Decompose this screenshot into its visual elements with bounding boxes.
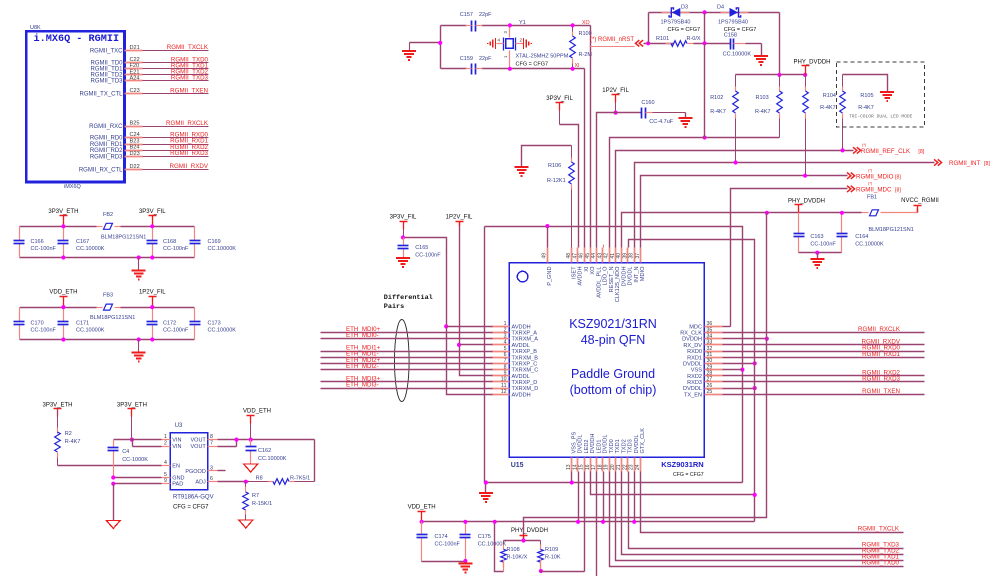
svg-text:1P2V_FIL: 1P2V_FIL xyxy=(139,290,166,296)
svg-text:(*) RGMII_nRST: (*) RGMII_nRST xyxy=(590,37,634,43)
svg-text:RGMII_MDIO: RGMII_MDIO xyxy=(856,174,894,181)
svg-text:C170: C170 xyxy=(31,320,44,326)
U15 pin 36 MDC xyxy=(705,326,723,328)
wire LED1 pin17 xyxy=(596,472,598,576)
U15 pin 21 TXD2 xyxy=(621,458,623,472)
svg-text:1P2V_FIL: 1P2V_FIL xyxy=(446,215,473,221)
net RGMII_TXEN xyxy=(723,394,925,396)
svg-text:VOUT: VOUT xyxy=(191,438,207,444)
wire strap to ground xyxy=(843,75,888,93)
svg-text:CC.10000K: CC.10000K xyxy=(208,246,237,252)
svg-text:2: 2 xyxy=(504,327,507,333)
svg-text:VIN: VIN xyxy=(172,438,181,444)
power flag VDD_ETH xyxy=(247,415,255,417)
U15 pin 39 DVDDL xyxy=(627,248,629,263)
power flag 3P3V_ETH xyxy=(128,408,136,410)
svg-text:3P3V_FIL: 3P3V_FIL xyxy=(390,215,417,221)
svg-text:RGMII_RXD3: RGMII_RXD3 xyxy=(862,376,900,383)
capacitor C4 xyxy=(113,440,115,448)
ellipse differential pairs highlight xyxy=(395,320,410,402)
U15 pin 34 DVDDH xyxy=(705,338,723,340)
svg-text:DVDDH: DVDDH xyxy=(590,434,596,454)
svg-text:32: 32 xyxy=(707,346,713,352)
wire R108 R109 top xyxy=(504,540,541,542)
svg-text:22pF: 22pF xyxy=(479,12,492,18)
capacitor C157 xyxy=(471,21,473,32)
ferrite bead FB2 xyxy=(97,226,103,228)
wire 3P3V_FIL to AVDDH pin47 xyxy=(560,125,579,248)
svg-text:CFG = CFG7: CFG = CFG7 xyxy=(673,472,704,478)
node D3-D4 junction xyxy=(703,10,707,14)
svg-text:CC-100nF: CC-100nF xyxy=(810,242,836,248)
svg-text:XTAL-25MHZ 50PPM: XTAL-25MHZ 50PPM xyxy=(516,54,569,60)
U3 pin 8 stub xyxy=(208,439,218,441)
svg-text:41: 41 xyxy=(610,253,616,259)
svg-text:XO: XO xyxy=(590,266,596,275)
svg-text:VIN: VIN xyxy=(172,444,181,450)
svg-text:12: 12 xyxy=(501,389,507,395)
svg-text:48-pin QFN: 48-pin QFN xyxy=(581,333,646,347)
resistor R103 xyxy=(779,75,781,87)
svg-text:46: 46 xyxy=(579,253,585,259)
ground xyxy=(239,520,253,528)
resistor R7 xyxy=(245,482,247,487)
svg-text:XI: XI xyxy=(584,266,590,272)
svg-text:39: 39 xyxy=(622,253,628,259)
capacitor C166 xyxy=(19,227,21,241)
U15 pin 18 DVDDL xyxy=(602,458,604,472)
svg-text:Differential: Differential xyxy=(384,294,433,302)
wire cap bottoms xyxy=(799,252,842,254)
svg-text:TXD2: TXD2 xyxy=(621,439,627,453)
svg-text:RGMII_TXD3: RGMII_TXD3 xyxy=(171,75,209,82)
wire XI bottom rail xyxy=(441,68,467,70)
svg-text:RGMII_RXD3: RGMII_RXD3 xyxy=(170,150,208,157)
svg-text:TXRXM_C: TXRXM_C xyxy=(512,368,539,374)
U15 pin 30 DVDDL xyxy=(705,363,723,365)
svg-text:C174: C174 xyxy=(435,534,448,540)
svg-text:C162: C162 xyxy=(258,448,271,454)
U15 pin 33 RX_DV xyxy=(705,344,723,346)
U15 pin 44 AVDDL_PLL xyxy=(596,248,598,263)
svg-text:R-4K7: R-4K7 xyxy=(710,109,726,115)
svg-text:19: 19 xyxy=(604,464,610,470)
wire VSS pin29 xyxy=(723,369,743,371)
wire LED2 pin15 xyxy=(584,472,586,572)
svg-text:9: 9 xyxy=(504,371,507,377)
svg-text:PGOOD: PGOOD xyxy=(185,469,206,475)
svg-text:R7: R7 xyxy=(252,493,259,499)
svg-text:AVDDL: AVDDL xyxy=(512,343,530,349)
svg-text:33: 33 xyxy=(707,340,713,346)
svg-text:C172: C172 xyxy=(163,320,176,326)
capacitor C172 xyxy=(152,308,154,322)
svg-text:CC.10000K: CC.10000K xyxy=(76,246,105,252)
capacitor C173 xyxy=(194,308,196,322)
svg-text:CLK125_NDO: CLK125_NDO xyxy=(615,266,621,302)
wire GND left vertical xyxy=(484,227,486,483)
svg-text:ETH_MDI0-: ETH_MDI0- xyxy=(346,332,379,339)
svg-text:14: 14 xyxy=(572,464,578,470)
svg-text:C169: C169 xyxy=(208,239,221,245)
svg-text:A24: A24 xyxy=(130,75,140,81)
svg-text:1PS79SB40: 1PS79SB40 xyxy=(661,20,691,26)
wire DVDDH pin16 xyxy=(591,472,755,495)
svg-text:CC.10000K: CC.10000K xyxy=(208,327,237,333)
svg-text:VSS_PS: VSS_PS xyxy=(571,431,577,453)
svg-text:RGMII_RXCLK: RGMII_RXCLK xyxy=(858,326,901,333)
node PHY down xyxy=(765,211,769,215)
svg-text:XO: XO xyxy=(582,20,590,26)
ground xyxy=(113,484,115,521)
resistor R2 xyxy=(57,409,59,428)
svg-text:CC.10000K: CC.10000K xyxy=(478,542,507,548)
wire PAD pin9 xyxy=(114,483,162,485)
ground xyxy=(761,44,763,57)
svg-text:RXD2: RXD2 xyxy=(687,374,702,380)
svg-text:GTX_CLK: GTX_CLK xyxy=(640,428,646,454)
svg-text:DVDDL: DVDDL xyxy=(578,435,584,454)
svg-text:Paddle Ground: Paddle Ground xyxy=(571,367,655,381)
U15 pin 23 DVDDL xyxy=(634,458,636,472)
svg-text:CC-100nF: CC-100nF xyxy=(415,253,441,259)
U15 pin 43 LDO_O xyxy=(602,248,604,263)
svg-text:VSS: VSS xyxy=(691,368,702,374)
svg-text:TXRXP_D: TXRXP_D xyxy=(512,380,538,386)
svg-text:C168: C168 xyxy=(163,239,176,245)
net RGMII_MDIO xyxy=(641,176,848,248)
node VSS xyxy=(740,368,744,372)
svg-text:C164: C164 xyxy=(855,234,868,240)
U3 pin 9 stub xyxy=(162,483,171,485)
U15 pin 24 GTX_CLK xyxy=(640,458,642,472)
svg-text:C24: C24 xyxy=(130,132,140,138)
svg-text:R101: R101 xyxy=(656,36,669,42)
wire VOUT2 join xyxy=(218,446,237,448)
wire GND pin5 xyxy=(114,477,162,479)
U15 pin 26 DVDDL xyxy=(705,388,723,390)
power flag 3P3V_ETH xyxy=(54,408,62,410)
U15 pin 28 RXD2 xyxy=(705,375,723,377)
resistor R109 xyxy=(540,541,542,545)
net RGMII_RXDV xyxy=(723,344,925,346)
U3 pin 5 stub xyxy=(162,477,171,479)
node ADJ-R7 xyxy=(244,480,248,484)
wire DVDDL pin23 xyxy=(634,472,636,522)
svg-text:DVDDL: DVDDL xyxy=(628,267,634,286)
svg-text:RX_DV: RX_DV xyxy=(683,343,702,349)
svg-text:[8]: [8] xyxy=(895,188,901,194)
svg-text:Y1: Y1 xyxy=(519,20,526,26)
wire D4 to rail xyxy=(779,13,781,75)
ground xyxy=(244,464,258,472)
svg-text:D3: D3 xyxy=(681,5,688,11)
net RGMII_RXD0 xyxy=(723,351,925,353)
resistor R105 strap xyxy=(842,75,844,87)
svg-text:CC.10000K: CC.10000K xyxy=(258,456,287,462)
svg-text:8: 8 xyxy=(504,364,507,370)
resistor R101 R-0/X xyxy=(666,43,672,45)
svg-text:C165: C165 xyxy=(415,245,428,251)
svg-text:3: 3 xyxy=(210,465,213,471)
U15 pin 37 MDIO xyxy=(640,248,642,263)
svg-text:C163: C163 xyxy=(810,234,823,240)
U15 pin 3 TXRXM_A xyxy=(492,338,510,340)
svg-text:D22: D22 xyxy=(130,164,140,170)
resistor R106 ISET xyxy=(571,146,573,158)
U15 pin 6 TXRXM_B xyxy=(492,357,510,359)
svg-text:DVDDL: DVDDL xyxy=(603,435,609,454)
U3 pin 4 stub xyxy=(162,465,171,467)
svg-text:45: 45 xyxy=(585,253,591,259)
svg-text:2: 2 xyxy=(520,38,523,43)
U15 pin 32 RXD0 xyxy=(705,351,723,353)
wire feedback xyxy=(314,440,316,482)
svg-text:1: 1 xyxy=(504,321,507,327)
svg-text:3: 3 xyxy=(504,334,507,340)
U15 pin 8 TXRXM_C xyxy=(492,369,510,371)
svg-text:RGMII_TXCLK: RGMII_TXCLK xyxy=(167,44,209,51)
svg-text:CFG = CFG7: CFG = CFG7 xyxy=(173,505,209,511)
svg-text:RGMII_RXCLK: RGMII_RXCLK xyxy=(166,120,209,127)
svg-text:RGMII_TX_CTL: RGMII_TX_CTL xyxy=(79,92,123,98)
diode D3 1PS79SB40 xyxy=(662,12,671,14)
net RGMII_TXCLK xyxy=(641,472,904,533)
IC U15 KSZ9021/31RN xyxy=(509,263,704,457)
svg-text:44: 44 xyxy=(591,253,597,259)
net RGMII_RXCLK xyxy=(723,332,925,334)
svg-text:22pF: 22pF xyxy=(479,56,492,62)
svg-text:R103: R103 xyxy=(756,95,769,101)
diode D4 1PS79SB40 xyxy=(721,12,730,14)
svg-text:R-12K1: R-12K1 xyxy=(547,178,566,184)
svg-text:R-4K7: R-4K7 xyxy=(858,105,874,111)
svg-text:P_GND: P_GND xyxy=(547,267,553,286)
wire R108 to rail xyxy=(495,522,504,572)
svg-text:16: 16 xyxy=(585,464,591,470)
svg-text:PHY_DVDDH: PHY_DVDDH xyxy=(511,528,548,534)
svg-text:42: 42 xyxy=(604,253,610,259)
U15 pin 29 VSS xyxy=(705,369,723,371)
svg-text:CFG = CFG7: CFG = CFG7 xyxy=(516,62,549,68)
svg-text:CC-100nF: CC-100nF xyxy=(435,542,461,548)
capacitor C170 xyxy=(19,308,21,322)
svg-text:BLM18PG121SN1: BLM18PG121SN1 xyxy=(101,234,146,240)
svg-text:ISET: ISET xyxy=(571,266,577,279)
U3 pin 1 stub xyxy=(162,439,171,441)
svg-text:24: 24 xyxy=(635,464,641,470)
U15 pin 25 TX_EN xyxy=(705,394,723,396)
svg-text:ETH_MDI2-: ETH_MDI2- xyxy=(346,363,379,370)
svg-text:KSZ9021/31RN: KSZ9021/31RN xyxy=(569,317,657,331)
svg-text:MDC: MDC xyxy=(689,324,702,330)
power flag 1P2V_FIL xyxy=(456,221,464,223)
svg-text:VDD_ETH: VDD_ETH xyxy=(49,290,77,296)
svg-text:TXD3: TXD3 xyxy=(628,439,634,453)
svg-text:49: 49 xyxy=(542,253,548,259)
U15 pin 2 TXRXP_A xyxy=(492,332,510,334)
svg-text:AVDDH: AVDDH xyxy=(578,267,584,286)
U15 pin 41 CLK125_NDO xyxy=(615,248,617,263)
ferrite bead FB2 filter rail xyxy=(20,226,97,228)
svg-text:30: 30 xyxy=(707,358,713,364)
svg-text:BLM18PG121SN1: BLM18PG121SN1 xyxy=(90,315,135,321)
net RGMII_RXD3 xyxy=(723,381,925,383)
U15 pin 9 AVDDL xyxy=(492,375,510,377)
wire ETH_MDI0- xyxy=(321,338,493,340)
U15 pin 45 XO xyxy=(590,248,592,263)
wire GND bottom xyxy=(485,482,743,484)
svg-text:TXRXP_A: TXRXP_A xyxy=(512,331,538,337)
wire MDC pin36 riser xyxy=(723,326,731,328)
svg-text:7: 7 xyxy=(210,441,213,447)
U3 pin 6 stub xyxy=(208,481,218,483)
svg-text:RGMII_RD0: RGMII_RD0 xyxy=(90,136,123,142)
ground xyxy=(410,42,441,44)
U15 pin 17 LED1 xyxy=(596,458,598,472)
wire XO top rail xyxy=(441,25,467,27)
svg-text:R-0/X: R-0/X xyxy=(687,36,701,42)
svg-text:C157: C157 xyxy=(460,12,473,18)
svg-text:34: 34 xyxy=(707,334,713,340)
svg-text:C173: C173 xyxy=(208,320,221,326)
net RGMII_MDC xyxy=(731,189,848,327)
U15 pin 16 DVDDH xyxy=(590,458,592,472)
wire ADJ xyxy=(218,481,249,483)
svg-text:GND: GND xyxy=(172,476,184,482)
svg-text:CC-100nF: CC-100nF xyxy=(163,246,189,252)
svg-text:3P3V_FIL: 3P3V_FIL xyxy=(139,209,166,215)
wire R101 to C158 xyxy=(694,43,731,45)
svg-text:C166: C166 xyxy=(31,239,44,245)
svg-text:CC-100nF: CC-100nF xyxy=(31,246,57,252)
wire ETH_MDI2+ xyxy=(321,363,493,365)
svg-text:11: 11 xyxy=(501,383,506,389)
svg-text:9: 9 xyxy=(164,478,167,484)
resistor R8 xyxy=(249,481,269,483)
svg-text:ADJ: ADJ xyxy=(195,480,206,486)
svg-text:25: 25 xyxy=(707,389,713,395)
capacitor C160 xyxy=(641,108,643,119)
svg-text:20: 20 xyxy=(610,464,616,470)
svg-text:INT_N: INT_N xyxy=(634,267,640,283)
svg-text:(bottom of chip): (bottom of chip) xyxy=(570,383,657,397)
wire GND rail top xyxy=(485,227,743,483)
net RGMII_REF_CLK xyxy=(616,151,854,248)
IC U3 RT9186A-GQV xyxy=(170,433,208,490)
U15 pin 49 P_GND xyxy=(547,248,549,263)
svg-text:43: 43 xyxy=(597,253,603,259)
svg-text:U8K: U8K xyxy=(30,25,41,31)
svg-text:AVDDH: AVDDH xyxy=(512,324,531,330)
svg-text:R108: R108 xyxy=(507,547,520,553)
wire pullup rail xyxy=(736,74,806,76)
svg-text:RGMII_TD3: RGMII_TD3 xyxy=(90,79,123,85)
svg-text:TXRXP_B: TXRXP_B xyxy=(512,349,538,355)
svg-text:FB2: FB2 xyxy=(103,212,113,218)
wire R109 to LED2 xyxy=(541,571,585,573)
net RGMII_TXD1 xyxy=(616,472,904,561)
wire GND pin13 xyxy=(571,472,573,483)
node P_GND xyxy=(545,224,549,228)
svg-text:LED2: LED2 xyxy=(584,440,590,454)
svg-text:U15: U15 xyxy=(511,462,524,469)
wire ETH_MDI3+ xyxy=(321,381,493,383)
svg-text:KSZ9031RN: KSZ9031RN xyxy=(661,460,704,469)
svg-text:3P3V_ETH: 3P3V_ETH xyxy=(42,402,72,408)
svg-text:TRI-COLOR DUAL LED MODE: TRI-COLOR DUAL LED MODE xyxy=(849,114,913,120)
svg-text:C167: C167 xyxy=(76,239,89,245)
svg-text:PAD: PAD xyxy=(172,482,183,488)
ground xyxy=(396,258,410,267)
svg-text:1: 1 xyxy=(164,434,167,440)
svg-text:C160: C160 xyxy=(641,100,654,106)
net RGMII_RXD1 xyxy=(723,357,925,359)
svg-text:3P3V_ETH: 3P3V_ETH xyxy=(117,402,147,408)
svg-text:U3: U3 xyxy=(175,423,183,429)
svg-text:MDIO: MDIO xyxy=(640,266,646,281)
ferrite bead FB1 xyxy=(862,212,869,214)
U15 pin 4 AVDDL xyxy=(492,344,510,346)
power flag PHY_DVDDH xyxy=(795,204,803,206)
svg-text:DVDDL: DVDDL xyxy=(683,386,702,392)
svg-text:R106: R106 xyxy=(548,163,561,169)
svg-text:RESET_N: RESET_N xyxy=(609,267,615,293)
svg-text:5: 5 xyxy=(164,472,167,478)
svg-text:C22: C22 xyxy=(130,57,140,63)
svg-text:DVDDH: DVDDH xyxy=(682,337,702,343)
ferrite bead FB3 xyxy=(97,307,103,309)
wire PGOOD stub xyxy=(218,470,226,472)
svg-text:CC-4.7uF: CC-4.7uF xyxy=(649,119,673,125)
svg-text:C158: C158 xyxy=(724,32,737,38)
svg-text:RT9186A-GQV: RT9186A-GQV xyxy=(173,495,214,501)
wire cap bottoms xyxy=(422,561,466,563)
wire ETH_MDI2- xyxy=(321,369,493,371)
ground xyxy=(485,483,487,494)
dashed box TRI-COLOR DUAL LED MODE xyxy=(837,62,925,127)
svg-text:F20: F20 xyxy=(130,63,140,69)
svg-text:47: 47 xyxy=(572,253,578,259)
U3 pin 3 stub xyxy=(208,470,218,472)
wire ETH_MDI0+ xyxy=(321,332,493,334)
U15 pin 40 DVDDH xyxy=(621,248,623,263)
svg-text:RGMII_TXEN: RGMII_TXEN xyxy=(862,388,900,395)
wire AVDDH vertical 3P3V_FIL xyxy=(404,238,493,395)
svg-text:RGMII_MDC: RGMII_MDC xyxy=(856,187,892,194)
svg-text:B23: B23 xyxy=(130,138,140,144)
svg-text:7: 7 xyxy=(504,358,507,364)
svg-text:13: 13 xyxy=(566,464,572,470)
wire PHY_DVDDH rail xyxy=(622,213,862,248)
U15 pin 48 ISET xyxy=(571,248,573,263)
U15 pin 11 TXRXM_D xyxy=(492,388,510,390)
wire DVDDL pin14 xyxy=(578,472,580,522)
resistor R102 xyxy=(735,75,737,87)
wire DVDDL pin26 xyxy=(723,388,755,390)
U15 pin 20 TXD1 xyxy=(615,458,617,472)
svg-text:B25: B25 xyxy=(130,121,140,127)
U15 pin 14 DVDDL xyxy=(577,458,579,472)
svg-text:CC.10000K: CC.10000K xyxy=(723,52,752,58)
svg-text:RGMII_TD1: RGMII_TD1 xyxy=(90,67,123,73)
svg-text:CFG = CFG7: CFG = CFG7 xyxy=(668,27,701,33)
svg-text:6: 6 xyxy=(210,476,213,482)
svg-text:35: 35 xyxy=(707,327,713,333)
svg-text:RGMII_TD0: RGMII_TD0 xyxy=(90,61,123,67)
svg-text:RGMII_RXD1: RGMII_RXD1 xyxy=(862,351,900,358)
svg-text:31: 31 xyxy=(707,352,713,358)
